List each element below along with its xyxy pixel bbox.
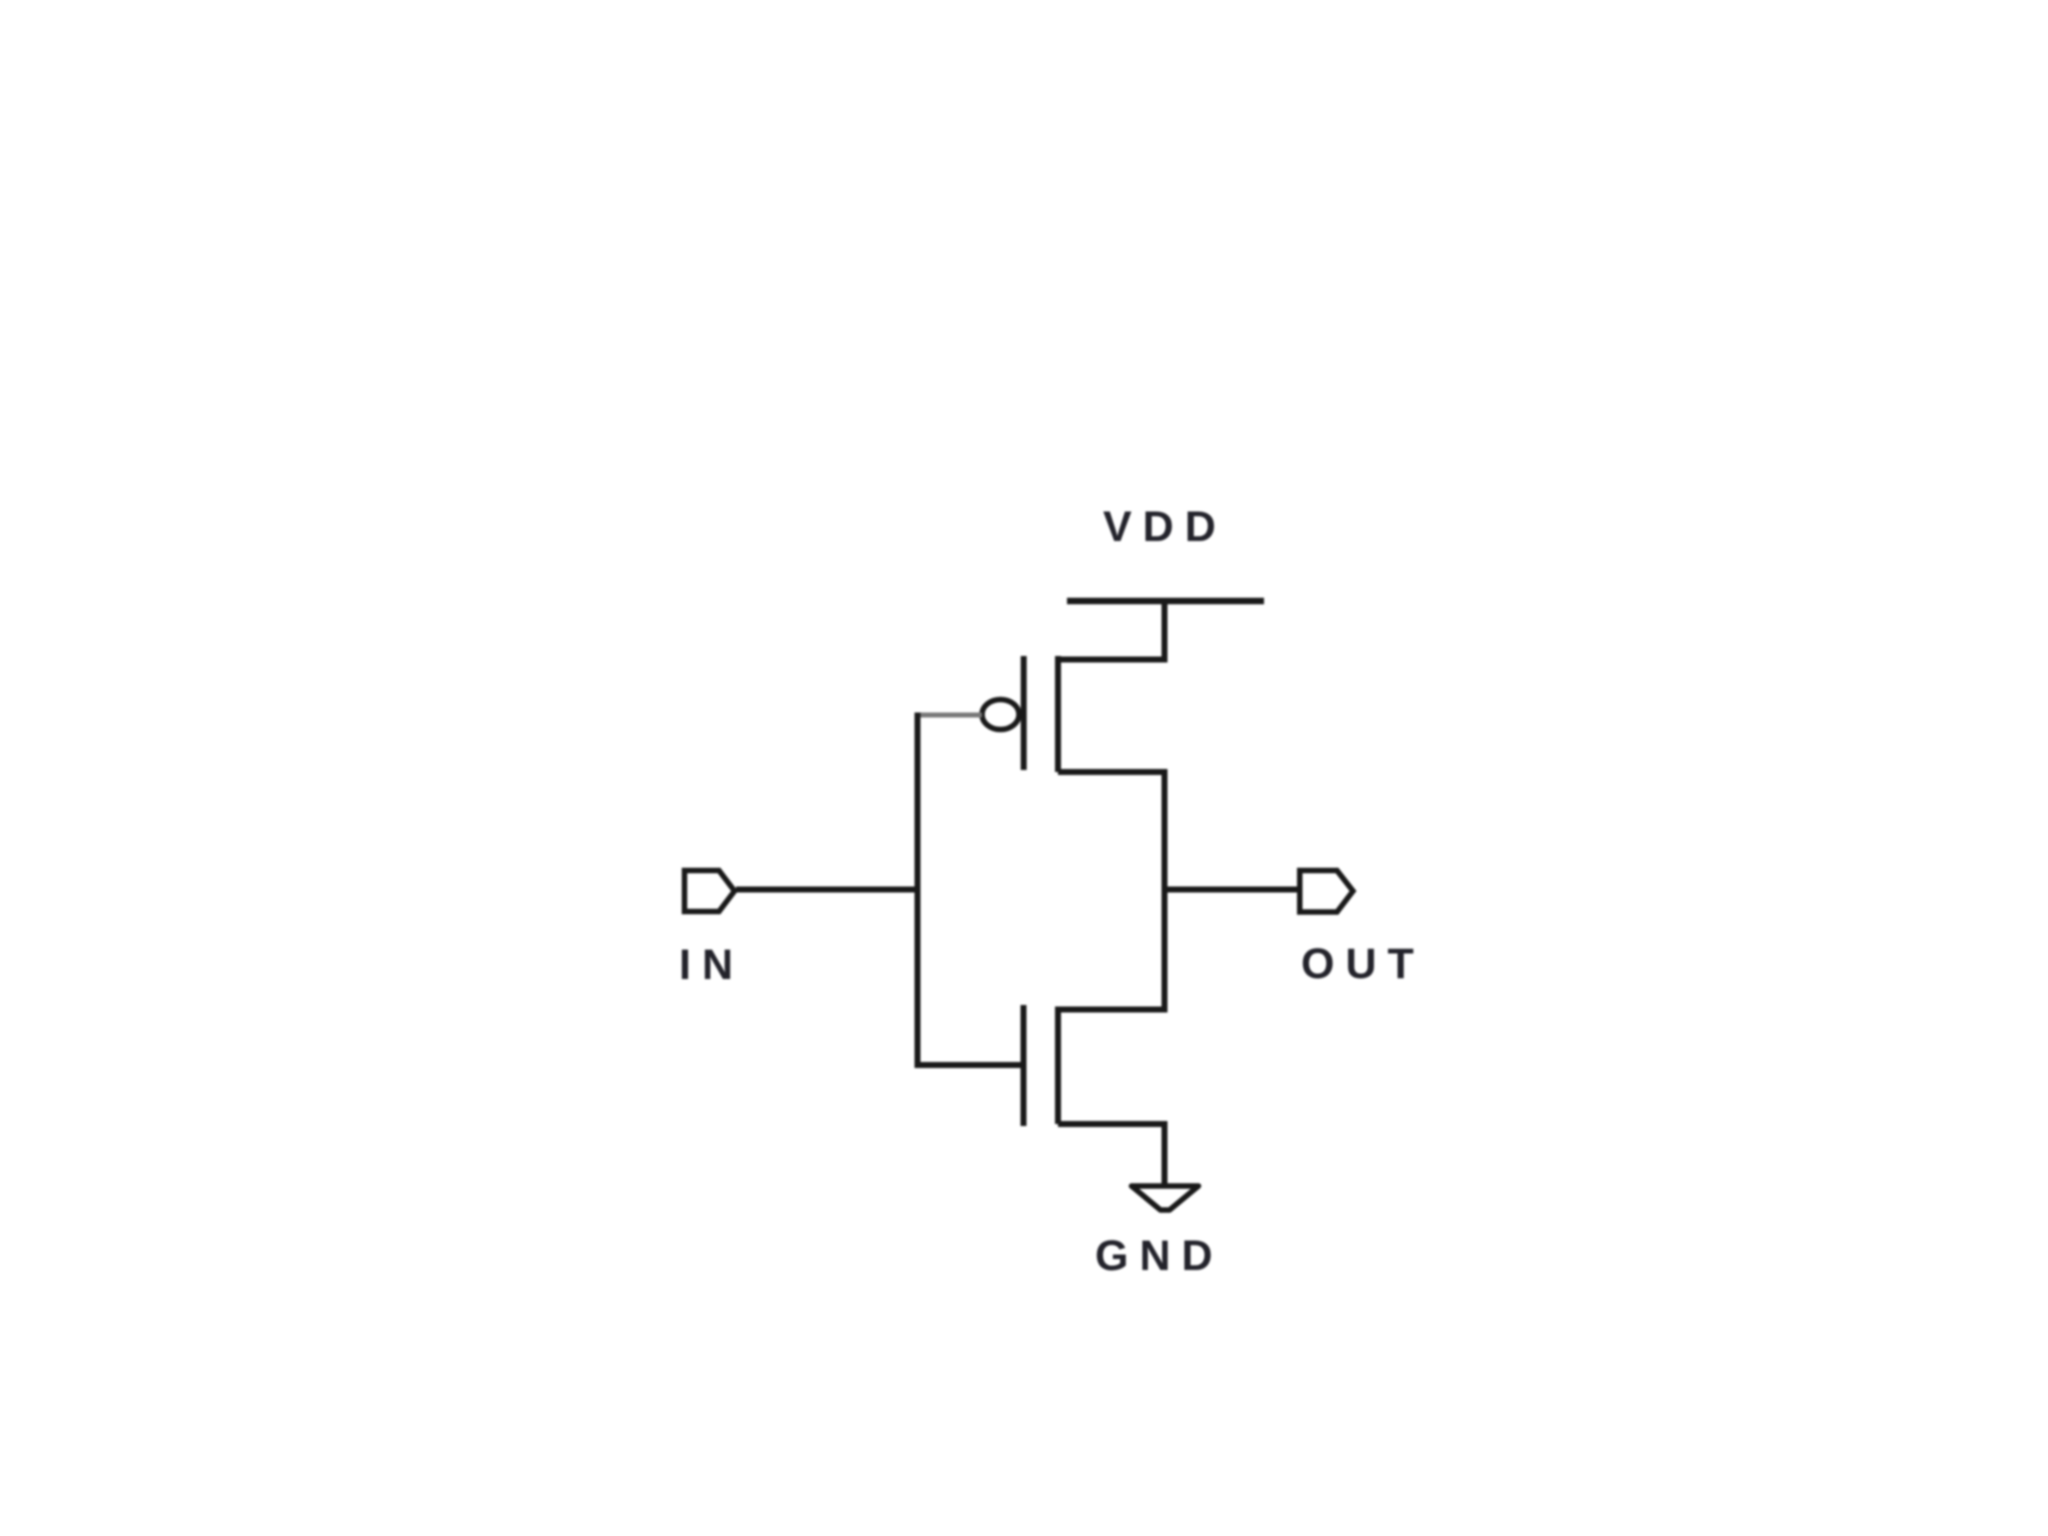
ground symbol: [1132, 1186, 1199, 1210]
Q1 source wire: [1058, 657, 1168, 663]
wire OUT: [1164, 887, 1300, 893]
transistor Q1 PMOS: [915, 656, 1168, 772]
Q1 gate plate: [1021, 656, 1027, 770]
transistor Q2 NMOS: [918, 1005, 1168, 1126]
wire IN: [736, 887, 921, 893]
pin OUT: [1300, 871, 1353, 913]
svg-text:IN: IN: [679, 941, 744, 989]
wire OUT bus (Q1 drain to Q2 drain): [1162, 769, 1168, 1013]
Q1 gate wire (gray): [915, 713, 982, 718]
Q1 channel plate: [1055, 656, 1061, 772]
svg-text:OUT: OUT: [1301, 940, 1425, 988]
svg-text:GND: GND: [1095, 1232, 1224, 1280]
Q2 gate wire: [918, 1062, 1024, 1068]
VDD power rail: [1067, 598, 1264, 605]
pin IN: [685, 871, 735, 912]
Q1 drain wire: [1058, 769, 1168, 775]
svg-text:VDD: VDD: [1103, 503, 1227, 551]
wire GND stub: [1162, 1124, 1168, 1186]
Q2 gate plate: [1021, 1005, 1027, 1126]
wire gate bus (input to both gates): [915, 713, 921, 1069]
Q2 drain wire: [1058, 1007, 1168, 1013]
wire VDD stub to Q1 source: [1162, 601, 1168, 662]
Q1 gate bubble: [982, 700, 1019, 730]
Q2 source wire: [1058, 1121, 1168, 1127]
Q2 channel plate: [1055, 1007, 1061, 1125]
